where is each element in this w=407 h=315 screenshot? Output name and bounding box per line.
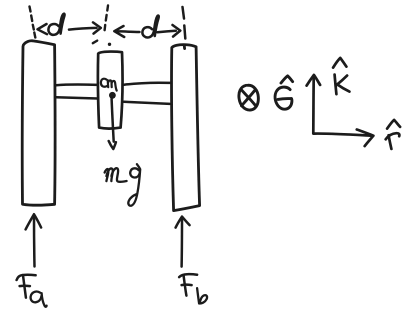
force arrow Fb (up) [176,217,190,267]
subscript b (of Fb) [197,288,207,303]
label d (first) [48,14,64,35]
axle bar bottom line (left segment) [56,97,98,98]
label F (of Fb) [179,274,197,295]
axle bar top line (left segment) [56,83,98,86]
dashed reference line left [30,7,36,38]
r-hat axis arrow (right) [314,130,374,147]
dimension arrowhead left (pointing left) [38,24,48,34]
dimension arrow far right (pointing right) [158,25,181,37]
right support bar rectangle [172,45,200,211]
r-hat label [386,120,400,149]
weight force arrow mg (down) [109,99,116,149]
out-of-page symbol (circle with X) [239,85,258,110]
force arrow Fa (up) [26,214,41,266]
dashed reference line right [183,7,186,39]
k-hat axis arrow (up) [307,75,321,134]
middle center-of-mass rectangle [98,52,123,129]
dimension arrow right (first, pointing right) [69,22,101,33]
theta-hat label [275,76,293,109]
label F (of Fa) [17,275,36,298]
left support bar rectangle [22,41,55,205]
dimension arrowhead middle (pointing left) [114,26,139,37]
axle bar bottom line (right segment) [124,102,170,104]
label d (second) [142,16,158,38]
label mg [105,164,141,206]
k-hat label [333,58,349,94]
center of mass dot [109,92,116,99]
dashed reference line middle [93,6,111,47]
subscript a (of Fa) [31,292,47,307]
label cm [101,79,117,91]
axle bar top line (right segment) [124,83,170,85]
